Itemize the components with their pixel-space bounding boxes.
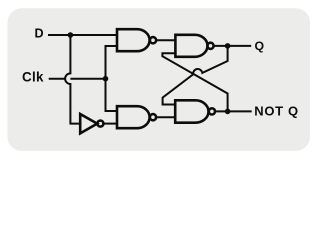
wire cross-couple NOTQ to gate3 <box>162 53 227 111</box>
wire cross-couple Q to gate4 (hops over other wire) <box>163 46 228 105</box>
svg-text:Q: Q <box>255 39 265 53</box>
wire Clk branch up to gate 1 <box>106 46 118 79</box>
panel background <box>8 8 311 151</box>
wire NOT Q output <box>215 110 252 112</box>
svg-text:Clk: Clk <box>22 69 44 84</box>
junction dot on D line <box>68 32 74 38</box>
wire D branch down with hop over Clk <box>65 35 80 124</box>
svg-text:D: D <box>35 27 44 41</box>
junction dot on NOT Q line <box>225 109 231 115</box>
NAND gate 3 (top-right) <box>175 35 207 57</box>
wire inverter output to gate2 <box>103 123 117 125</box>
junction dot on Clk line <box>103 76 109 82</box>
wire D input <box>48 34 117 36</box>
wire Clk branch down to gate 2 <box>106 79 118 111</box>
NAND gate 1 (top-left) <box>117 29 150 51</box>
wire gate1 output to gate3 <box>156 39 175 41</box>
inverter <box>80 114 97 133</box>
wire Clk right segment <box>70 78 105 80</box>
NAND gate 4 (bottom-right) <box>175 100 208 122</box>
NAND gate 2 (bottom-left) <box>117 106 150 128</box>
junction dot on Q line <box>225 43 231 49</box>
svg-text:NOT Q: NOT Q <box>254 104 298 119</box>
wire Clk left segment <box>49 78 65 80</box>
wire gate2 output to gate4 <box>156 116 175 118</box>
wire Q output <box>214 45 252 47</box>
